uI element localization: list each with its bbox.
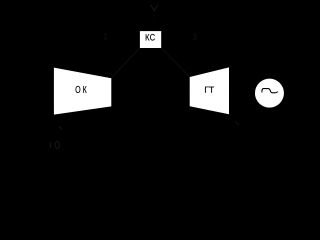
node 2 label ghost (after compressor) bbox=[104, 34, 107, 39]
exhaust tick ghost at turbine bottom-right bbox=[235, 121, 239, 125]
node 3 label ghost (after KC) bbox=[193, 34, 196, 40]
air inlet label ghost bbox=[50, 141, 60, 148]
compressor OK bbox=[54, 68, 111, 115]
wire KC to turbine (diagonal ghost) bbox=[161, 48, 190, 77]
air inlet arrow tick ghost bbox=[60, 127, 63, 130]
combustion chamber KC box bbox=[140, 31, 161, 48]
wire compressor to KC (diagonal ghost) bbox=[111, 48, 140, 79]
fuel arrowhead ghost bbox=[151, 5, 158, 11]
generator G bbox=[255, 79, 284, 108]
turbine GT bbox=[190, 67, 229, 114]
wire fuel line into KC (vertical, near-invisible) bbox=[153, 0, 155, 31]
wire shaft compressor-turbine (invisible) bbox=[111, 91, 190, 93]
wire shaft turbine-generator (invisible) bbox=[229, 91, 256, 93]
